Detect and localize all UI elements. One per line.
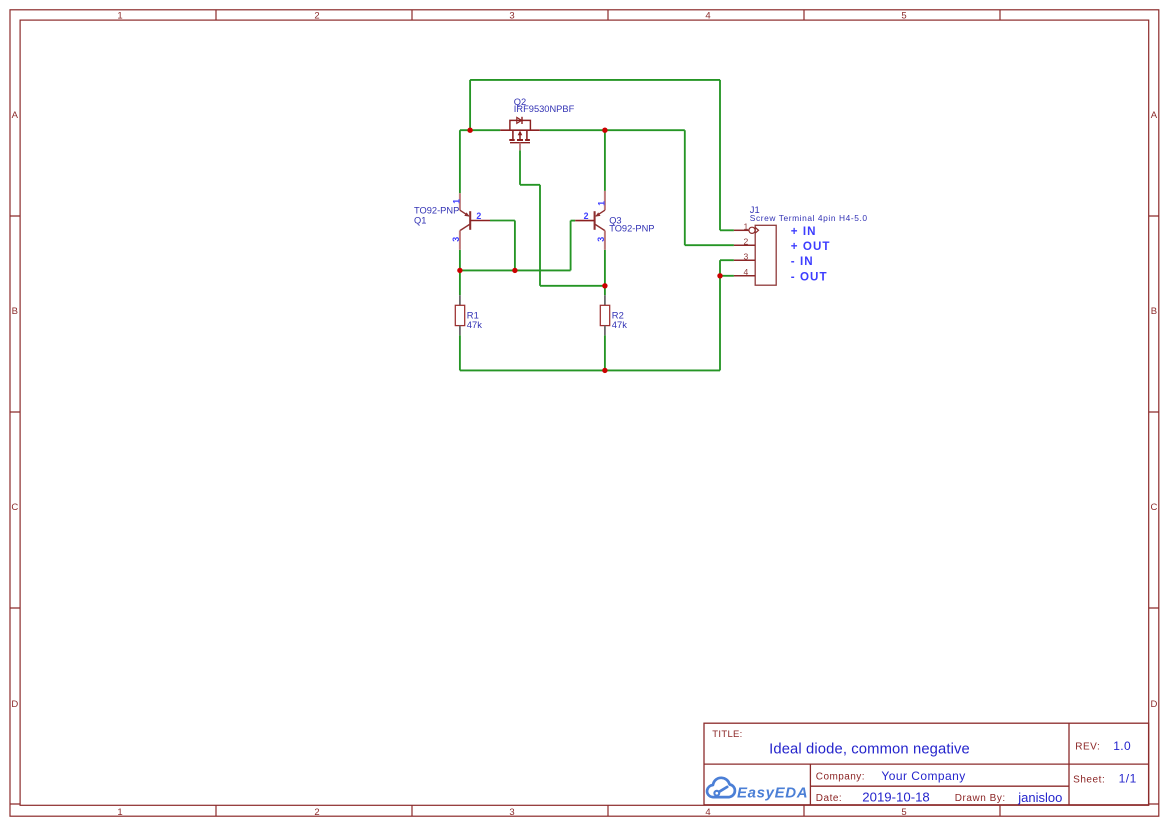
resistor R1 body [455,305,464,325]
svg-text:D: D [11,699,18,710]
connector J1 pin4 lead [734,275,755,277]
transistor Q3 pin1 lead [604,191,606,210]
wire bottom rail riser [719,276,721,371]
transistor Q2 body diode [517,117,522,123]
resistor R1 top lead [459,295,461,305]
svg-text:5: 5 [901,807,906,818]
transistor Q2 pins S/D [500,129,540,131]
junction Q2 drain / Q3 pin1 [602,128,607,133]
svg-text:3: 3 [744,252,749,262]
svg-text:A: A [12,110,19,121]
wire Q2 drain side horizontal [540,129,685,131]
wire J1 pin4 stub [720,275,734,277]
svg-text:- IN: - IN [791,255,814,268]
svg-text:B: B [12,306,18,317]
wire top rail +IN horizontal [470,79,720,81]
svg-text:5: 5 [901,11,906,22]
svg-text:2: 2 [314,11,319,22]
wire J1 pin3 stub [720,259,734,261]
svg-text:2: 2 [584,211,589,221]
transistor Q1 base pin [470,220,490,222]
wire Q1 pin1 drop [459,130,461,193]
transistor Q2 channel stubs [513,130,527,139]
wire Q1 emitter to R1 [459,250,461,295]
svg-text:+ IN: + IN [791,225,817,238]
svg-text:C: C [1150,502,1157,513]
transistor Q1 pin3 lead [459,231,461,250]
svg-text:Screw Terminal 4pin H4-5.0: Screw Terminal 4pin H4-5.0 [750,213,868,223]
transistor Q3 emitter diagonal [596,210,605,216]
resistor R2 bottom lead [604,326,606,336]
transistor Q3 base pin [575,220,594,222]
svg-text:Your Company: Your Company [881,769,965,783]
resistor R1 bottom lead [459,326,461,336]
transistor Q3 base bar [594,211,596,230]
svg-text:3: 3 [509,807,514,818]
svg-text:1: 1 [451,199,461,204]
junction top-left node [467,128,472,133]
wire top rail right drop to J1 pin1 [719,80,721,230]
wire Q3 pin1 drop [604,130,606,191]
svg-text:2019-10-18: 2019-10-18 [862,789,929,804]
svg-text:EasyEDA: EasyEDA [737,784,808,801]
transistor Q3 collector diagonal [595,224,605,231]
svg-text:Sheet:: Sheet: [1073,775,1105,786]
wire Q3 emitter to R2 [604,250,606,295]
wire top rail left drop [469,80,471,130]
svg-text:2: 2 [314,807,319,818]
wire drop to J1 pin2 [684,130,686,245]
wire R2 bottom [604,335,606,370]
svg-text:TO92-PNP: TO92-PNP [609,224,654,234]
svg-text:1: 1 [117,807,122,818]
wire Q3 base riser [570,221,572,271]
svg-text:TITLE:: TITLE: [712,729,742,740]
svg-text:1/1: 1/1 [1119,772,1137,786]
junction gate rail / Q3 collector [602,283,607,288]
junction J1 pin4 node [717,273,722,278]
junction Q1 base drop / base rail [512,268,517,273]
transistor Q3 pin3 lead [604,231,606,250]
wire J1 pin2 stub [685,244,734,246]
wire R1 bottom [459,335,461,370]
svg-text:Q1: Q1 [414,216,426,226]
wire Q3 base stub [571,220,576,222]
wire gate drop [539,185,541,286]
svg-text:3: 3 [509,11,514,22]
wire gate rail to Q3 collector [540,285,605,287]
junction Q1 collector / base rail [457,268,462,273]
svg-text:D: D [1150,699,1157,710]
svg-text:Date:: Date: [816,793,842,804]
svg-text:A: A [1151,110,1158,121]
transistor Q2 gate pin [519,143,521,151]
svg-text:Ideal diode, common negative: Ideal diode, common negative [769,741,970,757]
connector J1 pin1 bubble [749,227,755,233]
transistor Q1 emitter arrow [464,212,469,216]
svg-text:IRF9530NPBF: IRF9530NPBF [514,104,575,114]
wire Q1 base drop [514,221,516,271]
wire J1 pin3 riser [719,260,721,276]
svg-text:4: 4 [705,807,710,818]
svg-text:TO92-PNP: TO92-PNP [414,205,459,215]
transistor Q2 substrate arrow [519,134,521,139]
transistor Q1 emitter diagonal [460,210,469,216]
transistor Q3 emitter arrow [595,212,600,216]
svg-text:janisloo: janisloo [1017,790,1062,805]
wire Q2 source side horizontal [460,129,500,131]
transistor Q2 body-diode loop [510,120,531,130]
svg-text:B: B [1151,306,1157,317]
wire J1 pin1 stub [720,229,734,231]
transistor Q1 pin1 lead [459,193,461,210]
svg-text:1.0: 1.0 [1113,739,1131,753]
transistor Q2 channel bars [509,139,530,141]
svg-text:3: 3 [596,237,606,242]
connector J1 body [755,225,776,285]
transistor Q1 base bar [469,211,471,230]
connector J1 pin2 lead [734,244,755,246]
svg-text:- OUT: - OUT [791,270,828,283]
transistor Q1 collector diagonal [460,224,470,231]
svg-text:2: 2 [476,211,481,221]
connector J1 pin3 lead [734,259,755,261]
svg-text:C: C [11,502,18,513]
junction R2 / bottom rail [602,368,607,373]
wire bottom rail [460,369,720,371]
svg-text:Drawn By:: Drawn By: [955,793,1006,804]
svg-text:4: 4 [705,11,710,22]
svg-text:4: 4 [744,267,749,277]
svg-text:REV:: REV: [1075,742,1100,753]
wire Q1 base right [490,220,515,222]
svg-text:1: 1 [596,201,606,206]
connector J1 pin1 lead [734,229,749,231]
svg-text:2: 2 [744,237,749,247]
wire base rail [460,269,571,271]
svg-text:Company:: Company: [816,771,865,782]
wire Q2 gate elbow [520,184,540,186]
svg-text:+ OUT: + OUT [791,240,831,253]
connector J1 pin1 clock mark [755,228,758,234]
resistor R2 top lead [604,295,606,305]
svg-text:47k: 47k [467,319,482,330]
svg-text:1: 1 [744,222,749,232]
svg-text:3: 3 [451,237,461,242]
svg-text:1: 1 [117,11,122,22]
wire Q2 gate down [519,150,521,185]
transistor Q2 gate plate [510,142,530,144]
svg-text:47k: 47k [612,319,627,330]
resistor R2 body [600,305,609,325]
EasyEDA logo [707,778,808,802]
